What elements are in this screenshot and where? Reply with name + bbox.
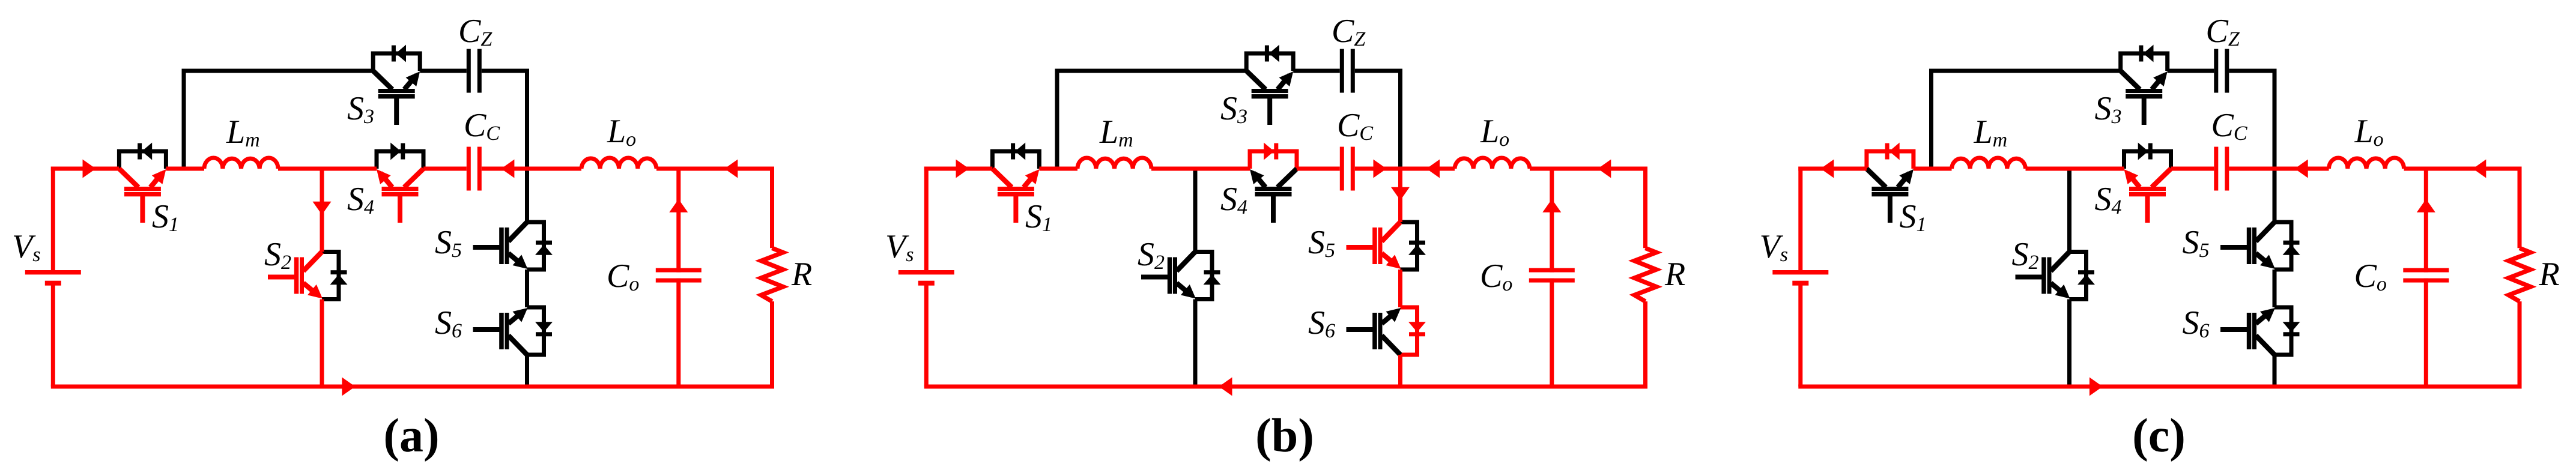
svg-text:(a): (a) bbox=[383, 409, 439, 462]
svg-text:R: R bbox=[791, 256, 812, 293]
svg-text:R: R bbox=[1664, 256, 1685, 293]
svg-text:R: R bbox=[2539, 256, 2560, 293]
svg-text:(c): (c) bbox=[2132, 409, 2186, 462]
svg-text:(b): (b) bbox=[1255, 409, 1314, 462]
